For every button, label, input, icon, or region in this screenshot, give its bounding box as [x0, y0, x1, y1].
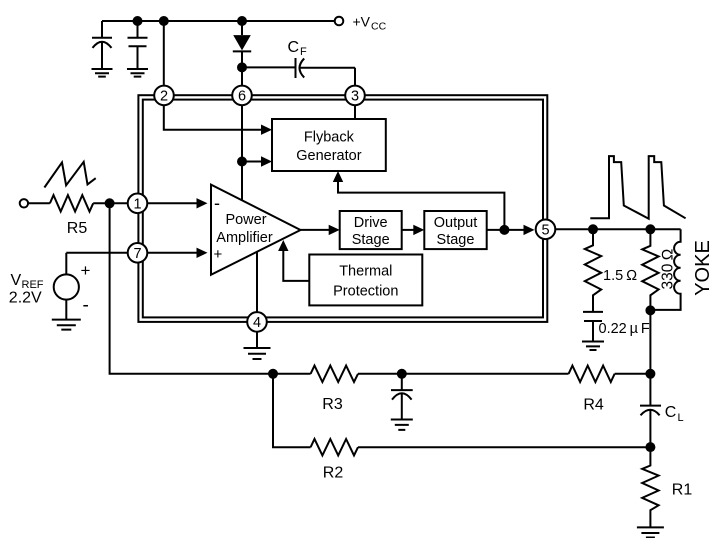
svg-text:+: +: [81, 261, 91, 280]
svg-text:R3: R3: [322, 396, 343, 413]
svg-text:L: L: [678, 412, 684, 424]
label 330 ohm: [660, 248, 677, 289]
node junction diode top: [237, 16, 247, 26]
node junction R3/cap: [397, 369, 407, 379]
svg-text:6: 6: [238, 89, 246, 105]
wire output stage to pin5: [487, 229, 524, 231]
svg-text:C: C: [288, 39, 300, 56]
node junction feedback bottom: [268, 369, 278, 379]
arrowhead into flyback (upper): [261, 125, 272, 135]
svg-text:1.5 Ω: 1.5 Ω: [603, 268, 637, 284]
wire R2 to R1 node: [358, 446, 650, 448]
wire R4 to CL node: [615, 373, 651, 375]
block Flyback Generator: [272, 119, 386, 171]
arrowhead into drive stage: [329, 225, 340, 235]
svg-text:4: 4: [253, 315, 261, 331]
capacitor CL: [640, 374, 661, 447]
label R5: [67, 220, 88, 237]
svg-text:Power: Power: [225, 212, 266, 228]
capacitor CF: [242, 58, 355, 86]
svg-text:Drive: Drive: [354, 215, 388, 231]
label R4: [583, 397, 604, 414]
svg-text:1: 1: [133, 197, 141, 213]
IC outer border: [138, 95, 547, 322]
svg-text:0.22 µ F: 0.22 µ F: [599, 321, 650, 337]
label CL: [665, 404, 684, 424]
ground (cap1): [92, 69, 113, 77]
label CF: [288, 39, 308, 58]
node junction CF tap: [237, 62, 247, 72]
wire Vref to pin7: [66, 252, 196, 254]
svg-text:5: 5: [541, 223, 549, 239]
wire pin6 to flyback: [242, 161, 262, 163]
node junction yoke bottom: [645, 305, 655, 315]
svg-text:-: -: [83, 295, 89, 316]
svg-text:2.2V: 2.2V: [9, 290, 42, 307]
label YOKE: [692, 240, 712, 296]
svg-text:V: V: [11, 272, 22, 289]
wire amp to pin4: [256, 252, 258, 312]
label R1: [672, 482, 693, 499]
pin 1: [128, 194, 148, 214]
ground (R3 cap): [391, 420, 413, 430]
wire node to R3: [273, 373, 311, 375]
ground (0.22uF): [582, 342, 604, 351]
node junction pin6/flyback: [237, 157, 247, 167]
svg-text:+V: +V: [353, 14, 371, 30]
resistor R4: [569, 366, 615, 382]
pin 4: [247, 312, 267, 332]
pin 6: [232, 86, 252, 106]
wire R2 branch: [273, 374, 311, 447]
wire pin4 to ground: [256, 332, 258, 348]
svg-text:330 Ω: 330 Ω: [660, 248, 677, 289]
node junction cap2/rail: [133, 16, 143, 26]
node junction R4/CL: [645, 369, 655, 379]
svg-text:Stage: Stage: [437, 232, 475, 248]
svg-text:Thermal: Thermal: [339, 264, 392, 280]
ground (Vref): [52, 320, 81, 330]
resistor R2: [311, 439, 358, 455]
block Drive Stage: [340, 211, 402, 249]
resistor 1.5 ohm: [585, 229, 601, 312]
capacitor C-in1 (polarized, left): [92, 21, 112, 69]
wire output to flyback generator: [338, 182, 504, 230]
svg-text:C: C: [665, 404, 677, 421]
node junction yoke top: [645, 224, 655, 234]
resistor 330 ohm: [642, 229, 658, 310]
wire top supply rail: [102, 20, 335, 22]
node junction output/flyback feedback: [499, 225, 509, 235]
wire rail to pin 2: [163, 21, 165, 86]
arrowhead into amp + input: [197, 248, 208, 258]
wire amp output to drive stage: [301, 229, 330, 231]
svg-text:7: 7: [133, 246, 141, 262]
label 0.22uF: [599, 321, 650, 337]
svg-text:F: F: [300, 46, 307, 58]
arrowhead into amp - input: [197, 198, 208, 208]
label R3: [322, 396, 343, 413]
node junction CL/R2/R1: [645, 442, 655, 452]
svg-text:Generator: Generator: [296, 148, 361, 164]
node junction pin2 drop: [159, 16, 169, 26]
pin 7: [128, 243, 148, 263]
ground (pin4): [244, 348, 271, 359]
svg-text:R2: R2: [323, 465, 344, 482]
arrowhead into pin5: [524, 225, 535, 235]
svg-text:Stage: Stage: [352, 232, 390, 248]
node junction R5/pin1/feedback: [105, 198, 115, 208]
svg-text:2: 2: [160, 89, 168, 105]
capacitor C-in2: [128, 21, 148, 69]
wire pin2 to flyback: [164, 105, 262, 130]
wire pin6 internal supply: [241, 105, 243, 200]
svg-text:YOKE: YOKE: [692, 240, 712, 296]
input terminal: [20, 199, 28, 207]
block Output Stage: [424, 211, 486, 249]
label Vref 2.2V: [9, 272, 44, 307]
wire drive to output stage: [402, 229, 414, 231]
svg-text:CC: CC: [371, 21, 387, 33]
capacitor 0.22uF: [583, 312, 603, 342]
label R2: [323, 465, 344, 482]
svg-text:Output: Output: [434, 215, 478, 231]
ground (R1): [637, 527, 664, 537]
capacitor ripple (at R3 node): [391, 374, 413, 420]
wire R3 to R4: [358, 373, 569, 375]
resistor R1: [642, 447, 658, 527]
wire input to R5: [28, 202, 50, 204]
pin 3: [345, 86, 365, 106]
svg-text:-: -: [214, 193, 220, 213]
svg-text:Amplifier: Amplifier: [216, 230, 273, 246]
arrowhead up into flyback bottom: [333, 171, 343, 182]
diode D1: [233, 21, 251, 86]
resistor R5: [50, 195, 93, 211]
wire pin3 to flyback: [354, 105, 356, 119]
svg-text:Protection: Protection: [333, 284, 398, 300]
inductor yoke winding: [650, 229, 680, 310]
resistor R3: [311, 366, 358, 382]
wire pin5 output rail: [555, 228, 680, 230]
arrowhead into flyback (lower): [261, 156, 272, 166]
svg-text:R1: R1: [672, 482, 693, 499]
block Thermal Protection: [309, 255, 422, 306]
IC inner border: [143, 100, 543, 318]
voltage source Vref: [54, 253, 91, 320]
svg-text:3: 3: [351, 89, 359, 105]
svg-text:Flyback: Flyback: [304, 130, 355, 146]
arrowhead up into amp: [278, 240, 288, 251]
pin 2: [154, 86, 174, 106]
waveform sawtooth input: [44, 162, 95, 188]
+Vcc terminal: [335, 17, 344, 26]
waveform flyback pulses: [590, 156, 685, 219]
wire yoke bottom to R4 node: [649, 310, 651, 373]
node junction damping branch: [588, 224, 598, 234]
pin 5: [536, 220, 556, 240]
svg-text:+: +: [214, 246, 223, 263]
arrowhead into output stage: [413, 225, 424, 235]
svg-text:R4: R4: [583, 397, 604, 414]
label 1.5 ohm: [603, 268, 637, 284]
wire thermal to amp: [283, 251, 309, 281]
wire feedback vertical: [110, 203, 273, 373]
wire input to pin1: [93, 202, 196, 204]
label +Vcc: [353, 14, 387, 33]
op-amp power amplifier: [211, 185, 301, 275]
svg-text:R5: R5: [67, 220, 88, 237]
ground (cap2): [127, 69, 148, 77]
